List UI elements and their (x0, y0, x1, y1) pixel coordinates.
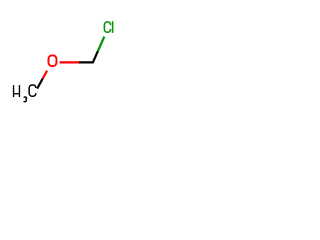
atom label H of H3C: left stem (13, 85, 15, 97)
atom label O (ether oxygen): ring (48, 55, 56, 66)
wire: bond CH2-Cl, chlorine half (98, 37, 104, 51)
atom label subscript 3 of H3C (24, 97, 27, 102)
wire: bond O-CH2 carbon half plus CH2-Cl carbon half, elbow at CH2 (79, 51, 98, 62)
atom label Cl: C ring (104, 22, 110, 32)
atom label C of H3C: right opening cut (33, 88, 37, 93)
wire: bond C(methyl)-O, carbon half (37, 78, 43, 88)
atom label C of H3C: ring (29, 85, 36, 96)
atom label H of H3C: right stem (18, 85, 20, 97)
wire: bond C(methyl)-O, oxygen half (43, 71, 47, 79)
atom label Cl: l vertical stroke (112, 21, 114, 33)
wire: bond O-CH2, oxygen half (60, 61, 79, 63)
atom label Cl: C right opening cut (108, 25, 112, 29)
molecule: chloromethyl methyl ether skeletal structure (0, 0, 130, 130)
atom label H of H3C: crossbar (14, 93, 20, 95)
